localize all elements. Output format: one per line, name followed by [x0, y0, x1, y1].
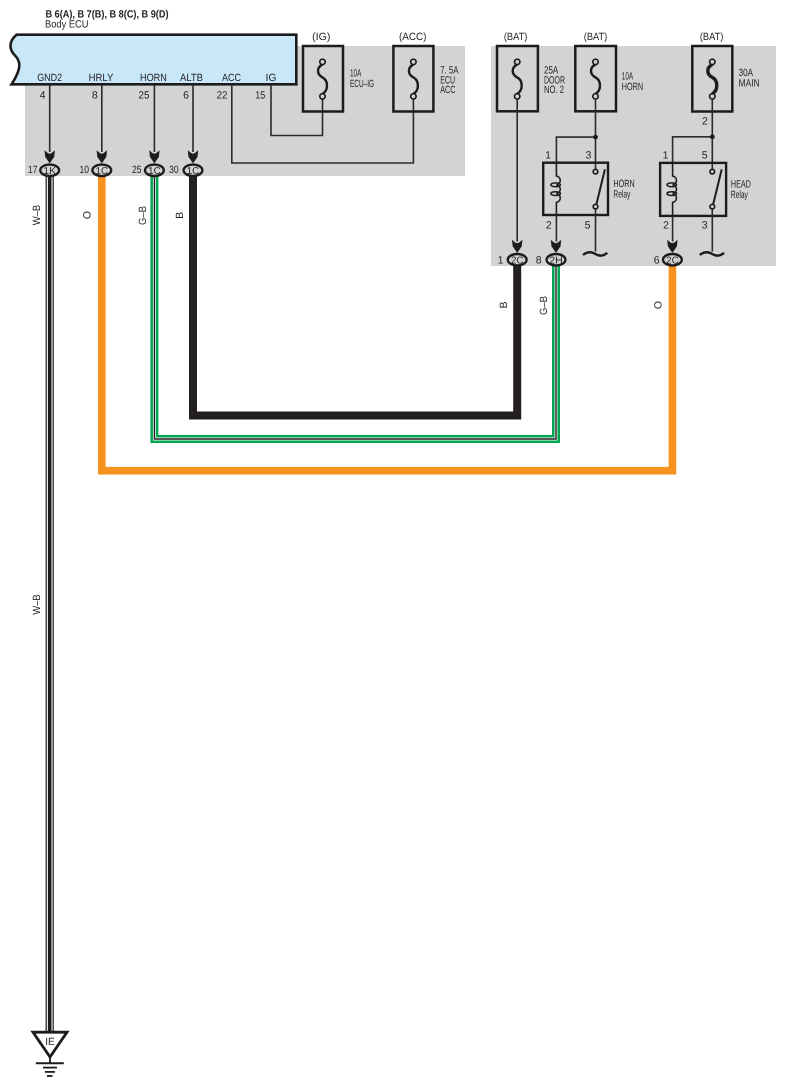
- wire pin 4 GND2: [49, 86, 51, 152]
- horn relay switch: [593, 169, 605, 209]
- horn relay box: [543, 163, 608, 215]
- wire pin 8 HRLY: [101, 86, 103, 152]
- svg-text:(BAT): (BAT): [700, 31, 724, 43]
- svg-text:(BAT): (BAT): [504, 31, 528, 43]
- svg-text:5: 5: [702, 149, 708, 161]
- connector arrow 2H (pin 8): [551, 240, 561, 253]
- svg-text:1K: 1K: [43, 166, 56, 177]
- svg-text:GND2: GND2: [37, 72, 62, 84]
- wire branch to relay pin 1: [556, 137, 595, 163]
- junction node MAIN: [710, 134, 715, 139]
- svg-text:(BAT): (BAT): [584, 31, 608, 43]
- svg-text:HORN: HORN: [140, 72, 167, 84]
- svg-text:B: B: [174, 212, 186, 219]
- connector arrow 2C (pin 6): [667, 240, 677, 253]
- ground IE triangle: [33, 1032, 67, 1057]
- svg-text:1: 1: [545, 149, 551, 161]
- junction block shading (left): [25, 46, 465, 176]
- wire pin 15 IG: [271, 86, 323, 136]
- svg-text:G–B: G–B: [538, 296, 550, 315]
- svg-text:B: B: [498, 301, 510, 308]
- wire G-B (green/black) HORN to 2H pin 8: [154, 176, 556, 439]
- svg-text:ECU–IG: ECU–IG: [350, 78, 374, 90]
- wire horn relay pin 5 to body ground: [595, 209, 597, 252]
- svg-text:(IG): (IG): [312, 31, 330, 43]
- svg-text:O: O: [82, 211, 94, 219]
- connector arrow 1C (HORN): [149, 150, 159, 163]
- svg-text:2C: 2C: [511, 255, 524, 266]
- svg-text:Relay: Relay: [731, 189, 748, 201]
- svg-text:W–B: W–B: [31, 205, 43, 226]
- wire O (orange) HRLY to 2C pin 6: [102, 176, 673, 471]
- junction block shading (right): [491, 46, 776, 266]
- svg-text:HORN: HORN: [622, 81, 643, 93]
- svg-text:10: 10: [80, 164, 90, 176]
- connector oval 2H (pin 8): [547, 254, 566, 265]
- fuse DOOR NO.2 25A: [497, 46, 538, 111]
- svg-text:W–B: W–B: [31, 594, 43, 615]
- wire pin 6 ALTB: [192, 86, 194, 152]
- svg-text:Relay: Relay: [613, 189, 630, 201]
- wire horn relay pin 2 to connector 2H: [555, 215, 557, 242]
- connector oval 2C (pin 1): [508, 254, 527, 265]
- svg-text:G–B: G–B: [137, 206, 149, 225]
- svg-text:8: 8: [536, 254, 542, 266]
- connector arrow 2C (pin 1): [512, 240, 522, 253]
- svg-text:5: 5: [585, 220, 591, 232]
- ground bar 1: [36, 1062, 64, 1064]
- fuse ECU ACC 7.5A: [393, 46, 433, 112]
- ground squiggle head relay: [700, 252, 724, 255]
- fuse ECU-IG 10A: [303, 46, 343, 112]
- svg-text:1C: 1C: [96, 166, 109, 177]
- connector oval 2C (pin 6): [663, 254, 682, 265]
- connector arrow 1C (ALTB): [188, 150, 198, 163]
- wire HORN fuse down to relay pin 3: [595, 99, 597, 170]
- svg-text:25: 25: [132, 164, 142, 176]
- ground bar 4: [47, 1075, 53, 1077]
- wire MAIN fuse down to relay pin 5: [711, 99, 713, 170]
- head relay switch: [710, 169, 722, 209]
- wire head relay pin 2 to connector 2C: [672, 216, 674, 242]
- ground stem: [49, 1058, 51, 1063]
- svg-text:1: 1: [663, 149, 669, 161]
- ground bar 3: [45, 1071, 55, 1073]
- svg-text:O: O: [653, 301, 665, 309]
- connector oval 1C (HORN): [145, 165, 164, 176]
- fuse MAIN 30A: [692, 46, 732, 112]
- Body ECU connector box: [10, 35, 296, 85]
- wire branch to head relay pin 1: [673, 137, 713, 163]
- wire B (black) ALTB to 2C pin 1: [193, 176, 517, 416]
- svg-text:1C: 1C: [148, 166, 161, 177]
- connector arrow 1C (HRLY): [97, 150, 107, 163]
- svg-text:MAIN: MAIN: [739, 78, 760, 90]
- svg-text:6: 6: [183, 89, 189, 101]
- horn relay coil: [551, 163, 561, 215]
- svg-text:30: 30: [169, 164, 179, 176]
- svg-text:25: 25: [139, 89, 150, 101]
- svg-text:4: 4: [40, 89, 46, 101]
- svg-text:ACC: ACC: [222, 72, 241, 84]
- wire DOOR fuse to connector 2C: [516, 99, 518, 242]
- wire pin 22 ACC: [232, 86, 414, 163]
- svg-text:1: 1: [498, 254, 504, 266]
- svg-text:2: 2: [663, 220, 669, 232]
- connector oval 1C (ALTB): [184, 165, 203, 176]
- svg-text:6: 6: [654, 254, 660, 266]
- head relay box: [660, 163, 726, 216]
- wire W-B (white/black) GND2 to ground: [46, 176, 54, 1032]
- svg-text:HRLY: HRLY: [89, 72, 114, 84]
- wire pin 25 HORN: [153, 86, 155, 152]
- svg-text:2H: 2H: [549, 255, 563, 266]
- svg-text:3: 3: [585, 149, 591, 161]
- svg-text:NO. 2: NO. 2: [544, 84, 564, 96]
- connector arrow 1K: [45, 150, 55, 163]
- fuse HORN 10A: [575, 46, 616, 111]
- svg-text:1C: 1C: [187, 166, 200, 177]
- ground squiggle horn relay: [583, 252, 607, 255]
- svg-text:IG: IG: [266, 72, 277, 84]
- junction node HORN: [593, 135, 598, 140]
- svg-text:IE: IE: [45, 1036, 55, 1048]
- svg-text:2: 2: [546, 220, 552, 232]
- svg-text:Body ECU: Body ECU: [45, 18, 89, 30]
- svg-text:15: 15: [255, 89, 265, 101]
- head relay coil: [667, 163, 677, 216]
- svg-text:ALTB: ALTB: [180, 72, 203, 84]
- svg-text:(ACC): (ACC): [399, 31, 427, 43]
- wire head relay pin 3 to body ground: [711, 209, 713, 252]
- svg-text:ACC: ACC: [440, 84, 456, 96]
- connector oval 1C (HRLY): [92, 165, 111, 176]
- ground bar 2: [43, 1067, 57, 1069]
- svg-text:3: 3: [702, 220, 708, 232]
- svg-text:2C: 2C: [666, 255, 679, 266]
- svg-text:2: 2: [702, 116, 708, 128]
- svg-text:8: 8: [92, 89, 98, 101]
- svg-text:22: 22: [217, 89, 228, 101]
- connector oval 1K: [40, 165, 59, 176]
- svg-text:17: 17: [28, 164, 38, 176]
